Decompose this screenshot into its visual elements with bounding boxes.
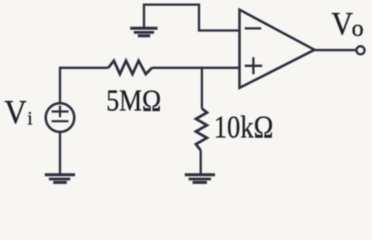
wire op-amp output — [315, 49, 357, 51]
wire junction down to R2 — [201, 68, 203, 109]
minus of source — [52, 120, 69, 122]
svg-text:10kΩ: 10kΩ — [214, 108, 273, 144]
non-inverting input marker (plus) — [245, 57, 263, 74]
ground (bottom left, under V1) — [45, 175, 75, 183]
wire from source bottom to ground — [59, 132, 61, 174]
op-amp U1 — [240, 10, 315, 88]
ground (bottom right, under R2) — [185, 175, 215, 183]
svg-text:i: i — [27, 109, 32, 130]
wire from source top up and right to resistor R1 — [60, 68, 108, 104]
inverting input marker (minus) — [245, 27, 262, 29]
plus of source — [52, 106, 69, 118]
ground (top, at op-amp inverting input) — [130, 28, 157, 36]
svg-text:5MΩ: 5MΩ — [106, 83, 161, 118]
wire from R1 to op-amp non-inverting input — [152, 67, 240, 69]
svg-text:V: V — [331, 7, 353, 43]
resistor R1 5MΩ — [108, 61, 152, 74]
resistor R2 10kΩ — [196, 109, 207, 151]
wire from top ground to op-amp inverting input — [144, 5, 240, 31]
svg-text:o: o — [352, 16, 364, 42]
terminal Vo — [356, 46, 364, 54]
voltage source V1 — [46, 103, 75, 132]
svg-text:V: V — [4, 94, 27, 131]
wire from R2 to bottom ground — [200, 150, 202, 173]
